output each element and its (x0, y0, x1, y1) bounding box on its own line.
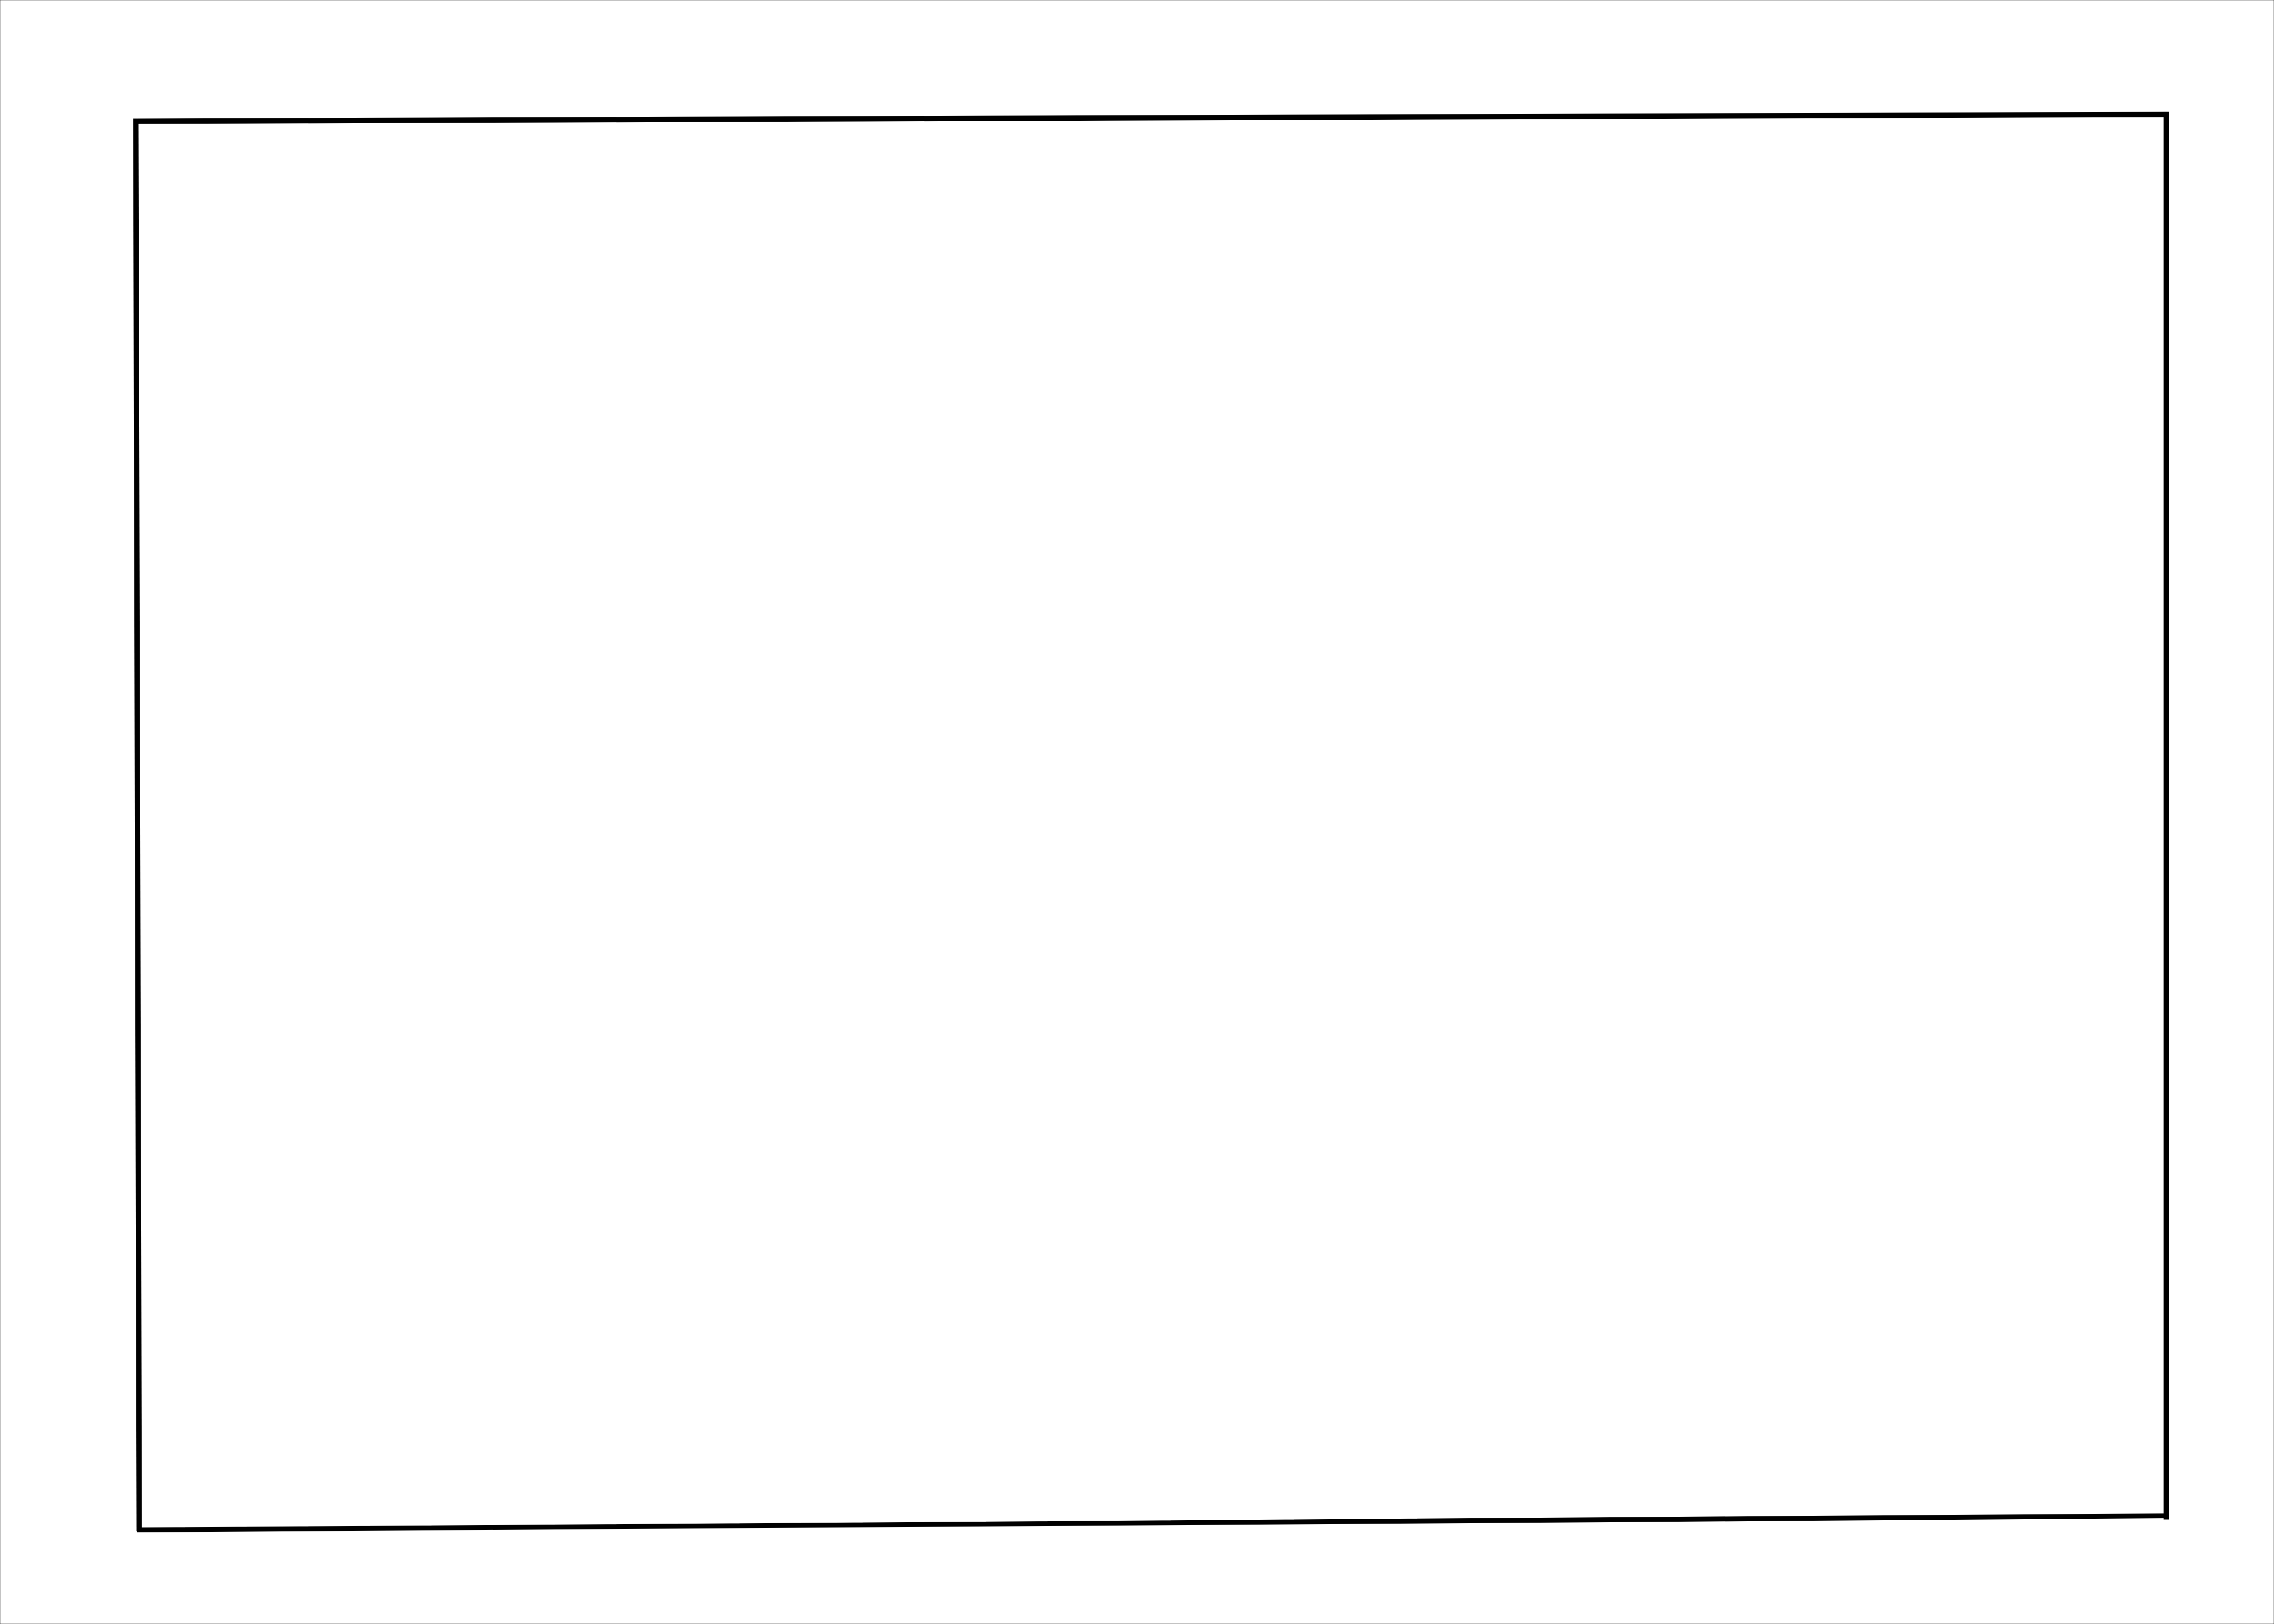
SHEET-FRAME (136, 114, 2166, 1530)
